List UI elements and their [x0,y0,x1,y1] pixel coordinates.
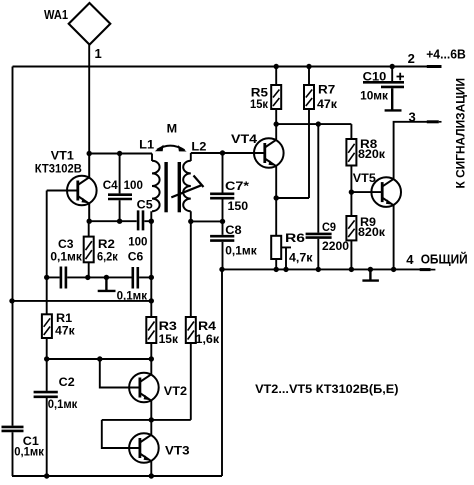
wire row y124 [276,123,351,125]
node dot R6 tap [283,267,288,272]
svg-text:C8: C8 [225,223,242,237]
transformer core bars [164,162,181,212]
transistor VT4 [254,138,284,168]
capacitor C2 0,1мк [34,392,58,397]
node dot C8 bottom common [219,267,224,272]
node dot ground stub [104,275,109,280]
node dot R2 bottom [85,275,90,280]
resistor R9 820к [346,216,356,240]
wire L2 bottom to C7/C8 junction [191,220,223,222]
wire R7 column to VT4 emitter [276,67,309,199]
terminal 3 dash [427,120,439,123]
capacitor C8 0,1мк [210,236,234,240]
node dot antenna/tank [87,151,92,156]
resistor R6 4,7к with tap [271,236,281,259]
svg-text:0,1мк: 0,1мк [117,288,148,302]
node dot R7 top [306,64,311,69]
wire common rail y269 [222,268,421,270]
svg-text:C6: C6 [128,249,144,263]
wire R1 bottom lead [46,338,48,359]
wire VT2 collector/emitter leads [150,359,152,420]
capacitor C9 2200 [306,234,332,238]
node dot R6 bottom [274,267,279,272]
resistor R8 820к [346,139,356,166]
svg-text:КТ3102В: КТ3102В [35,162,82,176]
resistor R3 15к [146,317,156,343]
svg-text:1: 1 [95,46,102,61]
svg-text:VT2: VT2 [164,384,188,398]
wire VT1 emitter row y222 [89,220,151,222]
svg-text:M: M [167,122,178,136]
wire C4 leads [119,154,121,222]
svg-text:0,1мк: 0,1мк [225,243,257,257]
node dot VT4 emitter [274,195,279,200]
inductor L1 [152,161,160,211]
capacitor C1 0,1мк [2,427,24,431]
resistor R1 47к [42,314,52,338]
wire VT1 base column [47,191,78,315]
resistor R4 1,6к [186,317,196,343]
svg-text:1,6к: 1,6к [196,332,221,346]
wire C7 leads [222,153,224,221]
wire C10 top lead [391,67,393,82]
svg-text:2: 2 [408,51,415,66]
svg-text:15к: 15к [250,97,269,111]
node dot C6 right [149,275,154,280]
node dot L2 bottom [188,219,193,224]
wire R5 column / VT4 collector lead [275,67,277,140]
wire VT5 collector lead / node 3 [394,122,427,179]
node dot C9 top [316,121,321,126]
wire R6 bottom lead [275,259,277,269]
node dot R5 top [274,64,279,69]
node dot VT2 emitter VT3 collector [149,417,154,422]
node dot VT4 collector [274,121,279,126]
L2 adjustment stroke [171,176,203,198]
svg-text:4,7к: 4,7к [289,251,314,265]
svg-text:820к: 820к [358,225,386,239]
wire VT4 base / L2 top [191,153,265,161]
wire top +V rail [13,66,428,68]
svg-text:C7*: C7* [225,179,249,193]
node dot C10 top [390,64,395,69]
svg-text:VT3: VT3 [165,443,190,457]
svg-text:100: 100 [128,234,148,248]
wire VT3 base branch [102,420,140,448]
node dot C9 bottom [316,267,321,272]
node dot VT1 base [44,275,49,280]
svg-text:0,1мк: 0,1мк [14,445,45,459]
node dot VT2 collector [149,356,154,361]
wire R4 to L2 column [190,211,192,420]
capacitor C10 10мк electrolytic [363,82,404,87]
transistor VT5 [371,177,401,207]
transistor VT3 [129,433,159,463]
svg-text:L2: L2 [191,139,206,153]
wire VT1 collector tank top [89,153,152,155]
svg-text:C9: C9 [322,220,336,234]
svg-text:ОБЩИЙ: ОБЩИЙ [421,252,468,267]
node dot ground stub common [368,267,373,272]
wire VT5 base [351,191,382,193]
svg-text:WA1: WA1 [44,7,68,22]
svg-text:2200: 2200 [322,239,349,253]
wire row y359 [47,358,152,360]
svg-text:L1: L1 [139,138,154,152]
wire VT5 emitter lead [393,205,395,269]
svg-text:0,1мк: 0,1мк [48,397,79,411]
svg-text:4: 4 [406,252,414,267]
node dot VT2 base branch [97,356,102,361]
capacitor C3 0,1мк [61,267,66,289]
antenna WA1 [69,3,111,45]
svg-text:VT2...VT5 КТ3102В(Б,Е): VT2...VT5 КТ3102В(Б,Е) [255,382,398,396]
wire row y301 [12,300,151,302]
wire row y420 [102,419,191,421]
svg-text:VT4: VT4 [231,132,257,146]
svg-text:10мк: 10мк [360,89,389,103]
svg-text:+4...6В: +4...6В [426,46,466,61]
node dot left border y301 [9,298,14,303]
wire left border upper [12,67,14,426]
svg-text:C5: C5 [137,198,153,212]
node dot C4 bottom [117,219,122,224]
node dot VT5 base [349,189,354,194]
transistor VT1 [67,154,97,222]
svg-text:К СИГНАЛИЗАЦИИ: К СИГНАЛИЗАЦИИ [454,78,468,189]
svg-text:C4: C4 [103,178,118,192]
svg-text:VT5: VT5 [353,171,376,185]
resistor R7 47к [304,85,314,109]
inductor L2 adjustable [183,161,191,211]
svg-text:47к: 47к [317,97,338,111]
node dot C2 bottom [44,473,49,478]
wire L1-C5-C6 column x151 [150,211,152,359]
resistor R5 15к [271,85,281,109]
coupling M arrow [155,145,187,152]
node dot C4 top [117,151,122,156]
svg-text:R6: R6 [285,231,305,245]
svg-text:47к: 47к [55,324,75,338]
wire left border lower [12,432,14,476]
wire C8 leads [222,221,224,269]
terminal 4 dash [420,268,431,271]
node dot R1 bottom [44,356,49,361]
wire R2 leads [88,221,90,277]
node dot R9 bottom [349,267,354,272]
node dot VT5 emitter [391,267,396,272]
node dot VT3 emitter [149,473,154,478]
transistor VT2 [129,373,159,403]
wire right return column [221,269,223,476]
ground symbol near C6 [98,277,116,291]
svg-text:C2: C2 [59,375,75,389]
wire L1 top lead [151,154,153,162]
svg-text:15к: 15к [159,332,179,346]
svg-text:0,1мк: 0,1мк [50,249,82,263]
svg-text:C10: C10 [363,69,387,83]
capacitor C7* 150 [210,194,234,198]
node dot C7 top [220,150,225,155]
terminal 2 dash [427,65,442,68]
ground bar under C10 [385,88,402,110]
node dot C5 right [149,219,154,224]
wire VT4 emitter to R6 [275,166,277,236]
svg-text:3: 3 [409,109,416,124]
svg-text:100: 100 [124,178,144,192]
resistor R2 6,2к [84,237,94,263]
wire R8/R9 column [350,124,352,269]
plus sign C10 [397,73,405,81]
capacitor C6 0,1мк [133,267,138,289]
capacitor C5 100 [138,210,143,230]
svg-text:R7: R7 [318,83,336,97]
svg-text:6,2к: 6,2к [97,249,119,263]
svg-text:820к: 820к [358,147,386,161]
wire VT2 base branch [100,359,140,388]
wire antenna lead node 1 [88,45,90,154]
wire C2 leads [46,359,48,476]
wire VT3 collector/emitter leads [150,420,152,476]
svg-text:VT1: VT1 [51,149,74,163]
wire row y277 [47,276,152,278]
svg-text:150: 150 [228,199,249,213]
wire R6 tap to common [281,247,291,269]
wire bottom rail [12,475,222,477]
node dot VT1 emitter [87,219,92,224]
node dot column y301 [149,298,154,303]
ground symbol on common rail [362,269,379,280]
wire C9 column [317,124,319,269]
capacitor C4 100 [108,195,132,199]
node dot C7 bottom [220,219,225,224]
